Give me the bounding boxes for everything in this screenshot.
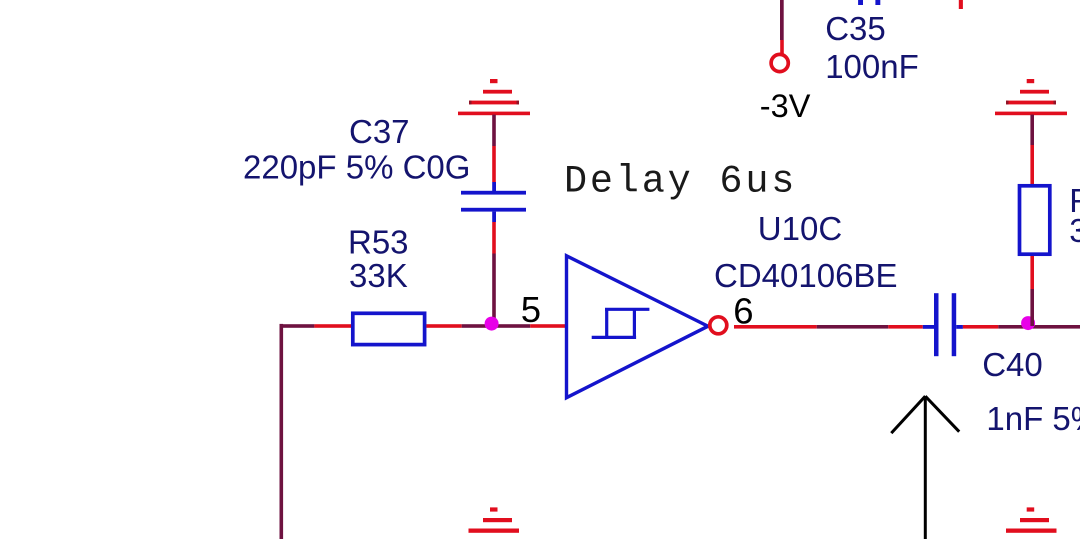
ground GND4 (bottom right, clipped) [1006,507,1057,532]
resistor R54 (partially visible labels) [1020,186,1050,254]
wire (blue pin stub top of C37) [492,182,496,192]
capacitor C35 (plates clipped at top edge) [858,0,880,5]
wire (maroon segment down to node) [492,254,496,327]
wire (red tick above -3V terminal) [780,40,784,54]
svg-text:U10C: U10C [758,210,842,247]
wire (red segment below right resistor) [1030,256,1034,289]
svg-text:-3V: -3V [760,88,811,124]
wire (blue pin stub left of C40) [923,325,934,329]
wire (maroon segment mid run) [817,325,889,329]
svg-text:33K: 33K [1069,212,1080,249]
node (junction dot at pin 5 net) [485,317,499,331]
wire (maroon stub from top edge to -3V terminal) [780,0,784,40]
svg-text:R53: R53 [348,224,409,261]
wire (blue pin stub bottom of C37) [492,212,496,223]
ground GND1 (top left earth symbol) [458,79,530,115]
wire (maroon segment down to right node) [1030,289,1034,326]
wire (GND2 stem maroon) [1030,115,1034,145]
ground GND2 (top right earth symbol) [995,79,1067,115]
wire (maroon segment to right edge through node) [998,325,1080,329]
wire (GND1 stem, maroon) [492,115,496,146]
svg-text:33K: 33K [349,257,408,294]
wire (red segment right of C40) [963,325,998,329]
svg-text:Delay 6us: Delay 6us [564,159,797,203]
wire (red segment into right resistor) [1030,145,1034,184]
svg-text:C35: C35 [825,10,886,47]
wire (red tick clipped at top edge) [959,0,963,9]
resistor R53 [353,313,425,344]
capacitor C37 [461,191,526,212]
wire (red segment from bubble) [734,325,817,329]
wire (red segment above C37) [492,146,496,182]
svg-text:CD40106BE: CD40106BE [714,257,897,294]
wire (red segment into inverter input) [530,324,566,328]
arrow (net direction marker) [891,396,959,539]
wire (red segment right of R53) [426,324,461,328]
wire (maroon segment through node 5) [462,324,531,328]
wire (blue pin stub right of C40) [956,325,963,329]
op-amp U10C (Schmitt-trigger inverter triangle) [567,256,709,398]
svg-text:100nF: 100nF [825,48,919,85]
wire (left horizontal maroon from corner) [280,324,315,328]
power terminal -3V (open circle) [771,54,788,71]
node (junction dot right net) [1021,316,1035,330]
inverter output bubble [710,317,727,334]
wire (red segment into C40) [888,325,923,329]
svg-text:5: 5 [521,289,541,330]
svg-text:220pF 5% C0G: 220pF 5% C0G [243,149,470,186]
svg-text:1nF 5%: 1nF 5% [986,400,1080,437]
svg-text:C40: C40 [982,346,1043,383]
capacitor C40 [934,293,956,356]
hysteresis symbol inside U10C [592,309,650,337]
wire (left vertical maroon, from corner down to bottom edge) [280,324,284,539]
ground GND3 (bottom left, clipped) [469,507,520,532]
svg-text:C37: C37 [349,113,410,150]
wire (red segment into R53) [314,324,351,328]
wire (red segment below C37) [492,222,496,254]
